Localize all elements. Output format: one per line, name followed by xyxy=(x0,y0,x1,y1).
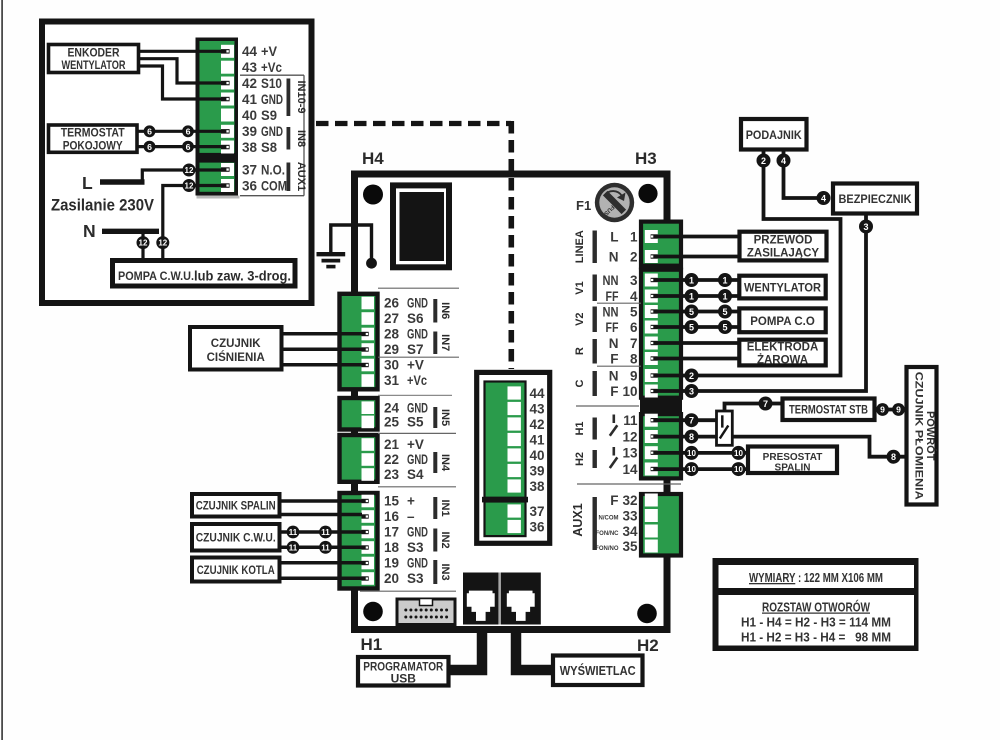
wire L to pin 37 xyxy=(142,170,221,182)
svg-text:H1: H1 xyxy=(574,421,586,435)
wire podajnik node 4 xyxy=(782,150,786,156)
svg-text:WYŚWIETLAC: WYŚWIETLAC xyxy=(560,663,636,678)
svg-text:42: 42 xyxy=(242,76,257,91)
svg-text:GND: GND xyxy=(261,124,283,139)
wire enkoder to pin 44 xyxy=(139,50,222,53)
group bar AUX1 xyxy=(571,497,597,550)
svg-text:27: 27 xyxy=(384,311,399,326)
PROGRAMATOR USB box xyxy=(358,657,449,686)
wire pin 4 to wentylator xyxy=(658,294,738,298)
svg-text:IN1: IN1 xyxy=(439,499,451,516)
svg-text:6: 6 xyxy=(186,127,191,137)
terminal block J8 (11-14) xyxy=(641,414,681,478)
svg-text:S4: S4 xyxy=(407,467,424,482)
svg-text:H1 - H2 = H3 - H4 = 98 MM: H1 - H2 = H3 - H4 = 98 MM xyxy=(741,631,891,645)
svg-text:FF: FF xyxy=(606,289,619,304)
svg-text:16: 16 xyxy=(384,509,400,524)
mounting hole H3 xyxy=(635,149,658,203)
svg-text:PRESOSTAT: PRESOSTAT xyxy=(763,452,823,463)
pin 37 (J5) xyxy=(508,504,545,519)
svg-text:21: 21 xyxy=(384,437,400,452)
svg-text:36: 36 xyxy=(530,520,546,535)
bracket IN7 xyxy=(433,332,451,355)
svg-text:43: 43 xyxy=(242,60,258,75)
RJ socket H1 side xyxy=(463,573,499,625)
svg-text:37: 37 xyxy=(530,504,545,519)
node 2 xyxy=(757,154,771,168)
wire pin 16 to czujnik spalin xyxy=(279,513,362,517)
group bar V1 xyxy=(574,275,597,302)
svg-text:38: 38 xyxy=(242,140,258,155)
svg-text:2: 2 xyxy=(630,250,638,265)
svg-text:IN2: IN2 xyxy=(439,531,451,548)
svg-text:S7: S7 xyxy=(407,342,424,357)
bracket IN4 xyxy=(433,452,451,473)
svg-text:40: 40 xyxy=(242,108,257,123)
wire N to pompa xyxy=(141,231,144,258)
node 4 xyxy=(817,191,831,205)
svg-text:11: 11 xyxy=(623,413,638,428)
pin 15 xyxy=(362,494,416,509)
svg-text:9: 9 xyxy=(880,405,885,415)
node 1 xyxy=(718,289,732,303)
group bar H2 xyxy=(574,450,597,468)
ENKODER WENTYLATOR box xyxy=(49,45,139,73)
bracket AUX1 xyxy=(287,162,308,191)
pin 35 xyxy=(595,539,658,554)
inset detail frame xyxy=(42,22,312,304)
svg-text:ZASILAJĄCY: ZASILAJĄCY xyxy=(747,248,820,260)
wire pin 7 to elektroda xyxy=(658,341,738,345)
pin 17 xyxy=(362,525,429,540)
STB switch symbol xyxy=(717,404,760,446)
svg-text:Zasilanie 230V: Zasilanie 230V xyxy=(51,197,154,215)
svg-text:25: 25 xyxy=(384,415,400,430)
svg-text:8: 8 xyxy=(689,432,694,442)
pin 20 xyxy=(362,571,425,586)
CZUJNIK KOTLA box xyxy=(192,558,280,582)
pin 36 (J5) xyxy=(508,520,546,535)
node 1 xyxy=(685,273,699,287)
pin 43 xyxy=(221,61,234,74)
pin 30 xyxy=(362,358,424,373)
pin 26 xyxy=(362,296,429,311)
wire pin 12 to powrot xyxy=(658,437,907,457)
svg-text:10: 10 xyxy=(734,449,743,458)
svg-text:S8: S8 xyxy=(261,140,277,155)
svg-text:1: 1 xyxy=(689,275,694,285)
svg-text:POKOJOWY: POKOJOWY xyxy=(63,140,123,152)
node 6 xyxy=(182,125,194,137)
wire enkoder to pin 42 xyxy=(139,59,222,83)
svg-text:10: 10 xyxy=(687,465,696,474)
node 2 xyxy=(685,369,699,383)
pin 41 (J5) xyxy=(508,433,546,448)
node 10 xyxy=(732,462,746,476)
pin 44 (J5) xyxy=(508,386,546,401)
CZUJNIK SPALIN box xyxy=(192,494,280,517)
svg-text:28: 28 xyxy=(384,327,400,342)
svg-text:32: 32 xyxy=(622,493,637,508)
dashed wire from inset xyxy=(316,121,511,369)
node 5 xyxy=(685,305,699,319)
page edge line xyxy=(1,0,3,740)
wire termostat to pin 38 xyxy=(137,145,221,148)
node 9 xyxy=(876,403,889,416)
svg-text:ELEKTRODA: ELEKTRODA xyxy=(747,342,819,354)
group bar C xyxy=(574,371,597,396)
svg-text:ROZSTAW OTWORÓW: ROZSTAW OTWORÓW xyxy=(762,600,870,615)
pin 9 xyxy=(609,369,658,384)
svg-text:SPALIN: SPALIN xyxy=(775,463,811,474)
svg-text:11: 11 xyxy=(321,528,330,537)
bracket IN8 xyxy=(287,127,308,150)
svg-text:2: 2 xyxy=(689,371,694,381)
svg-text:14: 14 xyxy=(622,462,638,477)
svg-text:WYMIARY : 122 MM X106 MM: WYMIARY : 122 MM X106 MM xyxy=(749,570,883,585)
svg-text:F: F xyxy=(610,352,618,367)
wire termostat stb to powrot xyxy=(875,408,907,412)
svg-text:39: 39 xyxy=(242,124,257,139)
svg-text:2: 2 xyxy=(761,156,766,166)
Zasilanie 230V label xyxy=(51,197,154,215)
wire pin 18 to czujnik cwu xyxy=(279,546,362,550)
pin 31 xyxy=(362,373,428,388)
wire podajnik node 2 xyxy=(762,150,766,156)
bracket IN1 xyxy=(433,497,451,519)
svg-text:24: 24 xyxy=(384,400,400,415)
pin 32 xyxy=(610,493,658,508)
svg-text:H1 - H4 = H2 - H3 = 114 MM: H1 - H4 = H2 - H3 = 114 MM xyxy=(741,616,891,630)
node 4 xyxy=(777,154,791,168)
mounting hole H2 xyxy=(637,604,659,655)
svg-text:CIŚNIENIA: CIŚNIENIA xyxy=(207,351,265,364)
svg-text:GND: GND xyxy=(407,556,428,571)
node 12 xyxy=(183,164,196,177)
wire pin 3 to wentylator xyxy=(658,278,738,282)
svg-text:IN6: IN6 xyxy=(439,302,451,319)
svg-text:4: 4 xyxy=(821,193,826,203)
svg-text:N/COM: N/COM xyxy=(599,516,619,522)
svg-text:9: 9 xyxy=(896,405,901,415)
svg-text:35: 35 xyxy=(622,539,638,554)
node 12 xyxy=(183,179,196,192)
svg-text:1: 1 xyxy=(722,275,727,285)
wire pin 6 to pompa co xyxy=(658,325,738,329)
wire pin 28 to czujnik cisnienia xyxy=(281,332,362,336)
svg-text:POMPA C.W.U.: POMPA C.W.U. xyxy=(118,269,194,283)
svg-text:7: 7 xyxy=(763,399,768,409)
pin 38 (J5) xyxy=(508,479,546,494)
ELEKTRODA ZAROWA box xyxy=(739,340,825,367)
svg-text:8: 8 xyxy=(891,452,896,462)
group bar LINEA xyxy=(574,230,597,263)
label separators xyxy=(240,75,304,196)
svg-text:+V: +V xyxy=(407,437,424,452)
pin 33 xyxy=(599,509,658,524)
svg-text:17: 17 xyxy=(384,525,399,540)
wire pin 29 to czujnik cisnienia xyxy=(281,348,362,352)
wire pin 2 to przewod xyxy=(658,255,738,259)
svg-text:FON/NO: FON/NO xyxy=(595,546,619,552)
pin 42 (J5) xyxy=(508,417,545,432)
left group separator lines xyxy=(360,288,459,591)
pin 7 xyxy=(609,336,658,351)
svg-text:IN8: IN8 xyxy=(295,130,307,147)
svg-text:CZUJNIK: CZUJNIK xyxy=(211,338,262,350)
bracket IN6 xyxy=(433,299,451,323)
svg-text:30: 30 xyxy=(384,358,399,373)
svg-text:42: 42 xyxy=(530,417,545,432)
svg-text:+Vc: +Vc xyxy=(407,373,427,388)
svg-text:40: 40 xyxy=(530,448,545,463)
pin 1 xyxy=(610,230,658,245)
node 12 xyxy=(156,236,169,249)
node 8 xyxy=(685,430,699,444)
svg-text:GND: GND xyxy=(407,525,428,540)
svg-text:FON/NC: FON/NC xyxy=(596,531,620,537)
pin 5 xyxy=(603,305,658,320)
POWROT CZUJNIK PLOMIENIA box xyxy=(907,367,938,505)
svg-text:34: 34 xyxy=(622,524,638,539)
node 8 xyxy=(887,450,901,464)
node 10 xyxy=(685,462,699,476)
pin 18 xyxy=(362,540,425,555)
pin 21 xyxy=(362,437,424,452)
pin 4 xyxy=(606,289,658,304)
svg-text:lub zaw. 3-drog.: lub zaw. 3-drog. xyxy=(194,269,291,284)
WYSWIETLACZ box xyxy=(553,656,643,686)
pin 16 xyxy=(362,509,416,524)
wire pin 9 to podajnik xyxy=(658,166,841,376)
svg-text:1: 1 xyxy=(630,230,638,245)
svg-text:CZUJNIK SPALIN: CZUJNIK SPALIN xyxy=(196,501,276,513)
wire pin 5 to pompa co xyxy=(658,310,738,314)
svg-text:33: 33 xyxy=(622,509,638,524)
svg-text:N: N xyxy=(83,221,96,241)
pin 37 xyxy=(221,163,234,176)
svg-text:6: 6 xyxy=(186,142,191,152)
node 10 xyxy=(685,446,699,460)
terminal block J2 (24-25) xyxy=(340,398,378,430)
pin 23 xyxy=(362,467,425,482)
svg-text:10: 10 xyxy=(734,465,743,474)
ground via node xyxy=(366,258,377,269)
WENTYLATOR box xyxy=(739,276,825,299)
pin 41 xyxy=(221,93,234,106)
CZUJNIK C.W.U. box xyxy=(192,524,280,551)
svg-text:S10: S10 xyxy=(261,76,282,91)
svg-text:H2: H2 xyxy=(574,452,586,466)
node 12 xyxy=(137,236,150,249)
svg-text:CZUJNIK PŁOMIENIA: CZUJNIK PŁOMIENIA xyxy=(913,372,925,500)
CZUJNIK CISNIENIA box xyxy=(190,327,282,370)
svg-text:NN: NN xyxy=(603,273,619,288)
terminal block J9 (32-35) xyxy=(641,494,681,556)
BEZPIECZNIK box xyxy=(833,184,917,214)
svg-text:PODAJNIK: PODAJNIK xyxy=(746,128,802,142)
node 1 xyxy=(685,289,699,303)
svg-text:–: – xyxy=(407,509,415,524)
node 11 xyxy=(319,526,332,539)
svg-text:LINEA: LINEA xyxy=(574,230,586,263)
svg-text:F: F xyxy=(610,493,618,508)
wire pin 1 to przewod xyxy=(658,235,738,239)
wire RJ1 to programator xyxy=(449,630,482,670)
svg-text:37: 37 xyxy=(242,162,257,177)
terminal block J3 (21-23) xyxy=(340,435,378,482)
svg-text:7: 7 xyxy=(630,336,638,351)
terminal block J6 (1-2) xyxy=(641,222,681,268)
wire pin 19 to czujnik kotla xyxy=(279,561,362,565)
svg-text:GND: GND xyxy=(407,400,428,415)
terminal block J1 (26-31) xyxy=(340,294,378,390)
bracket IN2 xyxy=(433,529,451,552)
ISP pin header xyxy=(397,599,455,625)
svg-text:BEZPIECZNIK: BEZPIECZNIK xyxy=(839,192,912,206)
wire pin 10 to bezpiecznik xyxy=(658,232,867,391)
mounting hole H4 xyxy=(362,149,384,205)
svg-text:GND: GND xyxy=(407,296,428,311)
pin 11 xyxy=(623,413,658,428)
svg-text:CZUJNIK C.W.U.: CZUJNIK C.W.U. xyxy=(196,533,276,545)
svg-text:TERMOSTAT STB: TERMOSTAT STB xyxy=(789,405,868,417)
svg-text:20: 20 xyxy=(384,571,399,586)
node 5 xyxy=(718,320,732,334)
svg-text:H2: H2 xyxy=(637,636,659,655)
wire pin 36 to pompa xyxy=(163,186,221,259)
pin 39 xyxy=(221,125,234,138)
svg-text:S3: S3 xyxy=(407,571,424,586)
pin 24 xyxy=(362,400,429,415)
svg-text:29: 29 xyxy=(384,342,399,357)
pin 12 xyxy=(622,430,657,445)
wire pin 14 to presostat xyxy=(658,467,749,471)
svg-text:13: 13 xyxy=(622,446,638,461)
svg-text:GND: GND xyxy=(407,452,428,467)
pin 44 xyxy=(221,45,234,58)
svg-text:41: 41 xyxy=(530,433,546,448)
svg-text:S9: S9 xyxy=(261,108,277,123)
wire node 4 to bezpiecznik xyxy=(784,166,818,198)
node 6 xyxy=(144,125,156,137)
PODAJNIK box xyxy=(741,119,807,150)
RJ socket separator xyxy=(499,573,501,625)
svg-text:36: 36 xyxy=(242,178,258,193)
node 6 xyxy=(182,141,194,153)
node 7 xyxy=(685,413,699,427)
block separator xyxy=(640,398,682,413)
svg-text:+V: +V xyxy=(261,44,277,59)
svg-text:H3: H3 xyxy=(635,149,657,168)
node 11 xyxy=(287,526,300,539)
pin 19 xyxy=(362,556,429,571)
svg-text:ŻAROWA: ŻAROWA xyxy=(757,354,808,367)
svg-text:F: F xyxy=(610,384,618,399)
svg-text:COM: COM xyxy=(261,178,287,193)
svg-text:IN4: IN4 xyxy=(439,454,451,472)
switch symbol H2 xyxy=(610,447,618,468)
wire pin 30 to czujnik cisnienia xyxy=(281,363,362,367)
svg-text:12: 12 xyxy=(622,430,637,445)
svg-text:4: 4 xyxy=(630,289,638,304)
group bar H1 xyxy=(574,418,597,440)
pin 38 xyxy=(221,141,234,154)
svg-text:AUX1: AUX1 xyxy=(295,162,307,191)
fuse F1 xyxy=(576,183,634,222)
svg-text:S5: S5 xyxy=(407,415,424,430)
pin 8 xyxy=(610,352,658,367)
svg-text:+: + xyxy=(407,494,415,509)
node 9 xyxy=(892,403,905,416)
svg-text:WENTYLATOR: WENTYLATOR xyxy=(744,283,822,295)
switch symbol H1 xyxy=(610,415,618,436)
svg-text:15: 15 xyxy=(384,494,400,509)
svg-text:PRZEWÓD: PRZEWÓD xyxy=(754,234,813,247)
svg-text:+Vc: +Vc xyxy=(261,60,282,75)
pin labels 44..36 xyxy=(242,44,287,193)
svg-text:12: 12 xyxy=(185,182,194,191)
svg-text:6: 6 xyxy=(147,142,152,152)
svg-text:V1: V1 xyxy=(574,281,586,294)
svg-text:H4: H4 xyxy=(362,149,384,168)
svg-text:31: 31 xyxy=(384,373,400,388)
svg-text:F1: F1 xyxy=(576,198,591,213)
svg-text:S3: S3 xyxy=(407,540,424,555)
N terminal xyxy=(83,221,159,241)
wire pin 17 to czujnik cwu xyxy=(279,530,362,534)
wire enkoder to pin 41 xyxy=(139,66,222,99)
svg-text:7: 7 xyxy=(689,416,694,426)
svg-text:38: 38 xyxy=(530,479,546,494)
wire RJ2 to wyswietlacz xyxy=(516,630,553,670)
POMPA C.O box xyxy=(739,308,825,332)
svg-text:11: 11 xyxy=(289,543,298,552)
svg-text:18: 18 xyxy=(384,540,400,555)
wire pin 20 to czujnik kotla xyxy=(279,577,362,581)
pin 40 xyxy=(221,109,234,122)
pin 42 xyxy=(221,77,234,90)
relay K1 xyxy=(393,185,449,267)
central connector J5 frame xyxy=(477,372,550,543)
svg-text:3: 3 xyxy=(689,386,694,396)
svg-text:26: 26 xyxy=(384,296,400,311)
terminal block X1 (inset 36-44) xyxy=(196,38,240,199)
node 5 xyxy=(718,305,732,319)
node 1 xyxy=(718,273,732,287)
svg-text:H1: H1 xyxy=(361,635,383,654)
pin 39 (J5) xyxy=(508,464,545,479)
pin 27 xyxy=(362,311,425,326)
svg-text:22: 22 xyxy=(384,452,399,467)
svg-text:10: 10 xyxy=(622,384,637,399)
svg-text:IN10-9: IN10-9 xyxy=(295,80,307,113)
right group separator lines xyxy=(576,303,681,484)
svg-text:C: C xyxy=(574,379,586,387)
svg-text:5: 5 xyxy=(689,307,694,317)
pin 6 xyxy=(606,320,658,335)
svg-text:1: 1 xyxy=(722,291,727,301)
wire node 7 to termostat stb xyxy=(772,402,783,406)
svg-text:POMPA C.O: POMPA C.O xyxy=(750,316,815,328)
node 5 xyxy=(685,320,699,334)
svg-text:11: 11 xyxy=(321,543,330,552)
svg-text:N: N xyxy=(609,336,619,351)
svg-text:N: N xyxy=(609,369,619,384)
POMPA C.W.U. box xyxy=(113,261,296,287)
svg-text:5: 5 xyxy=(722,307,727,317)
svg-text:WENTYLATOR: WENTYLATOR xyxy=(62,60,127,72)
